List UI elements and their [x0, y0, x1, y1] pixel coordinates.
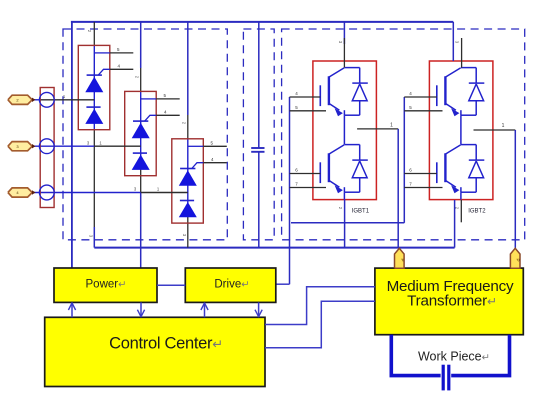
svg-text:Control Center↵: Control Center↵: [109, 334, 223, 352]
svg-text:P: P: [516, 258, 521, 261]
svg-text:Power↵: Power↵: [86, 278, 127, 290]
svg-text:Transformer↵: Transformer↵: [407, 293, 497, 310]
svg-text:Work Piece↵: Work Piece↵: [418, 349, 490, 363]
svg-text:1: 1: [390, 122, 393, 128]
svg-text:IGBT2: IGBT2: [468, 209, 486, 215]
svg-text:P: P: [400, 258, 405, 261]
svg-text:1: 1: [502, 123, 505, 129]
svg-text:IGBT1: IGBT1: [352, 209, 370, 215]
svg-text:Drive↵: Drive↵: [214, 278, 249, 290]
